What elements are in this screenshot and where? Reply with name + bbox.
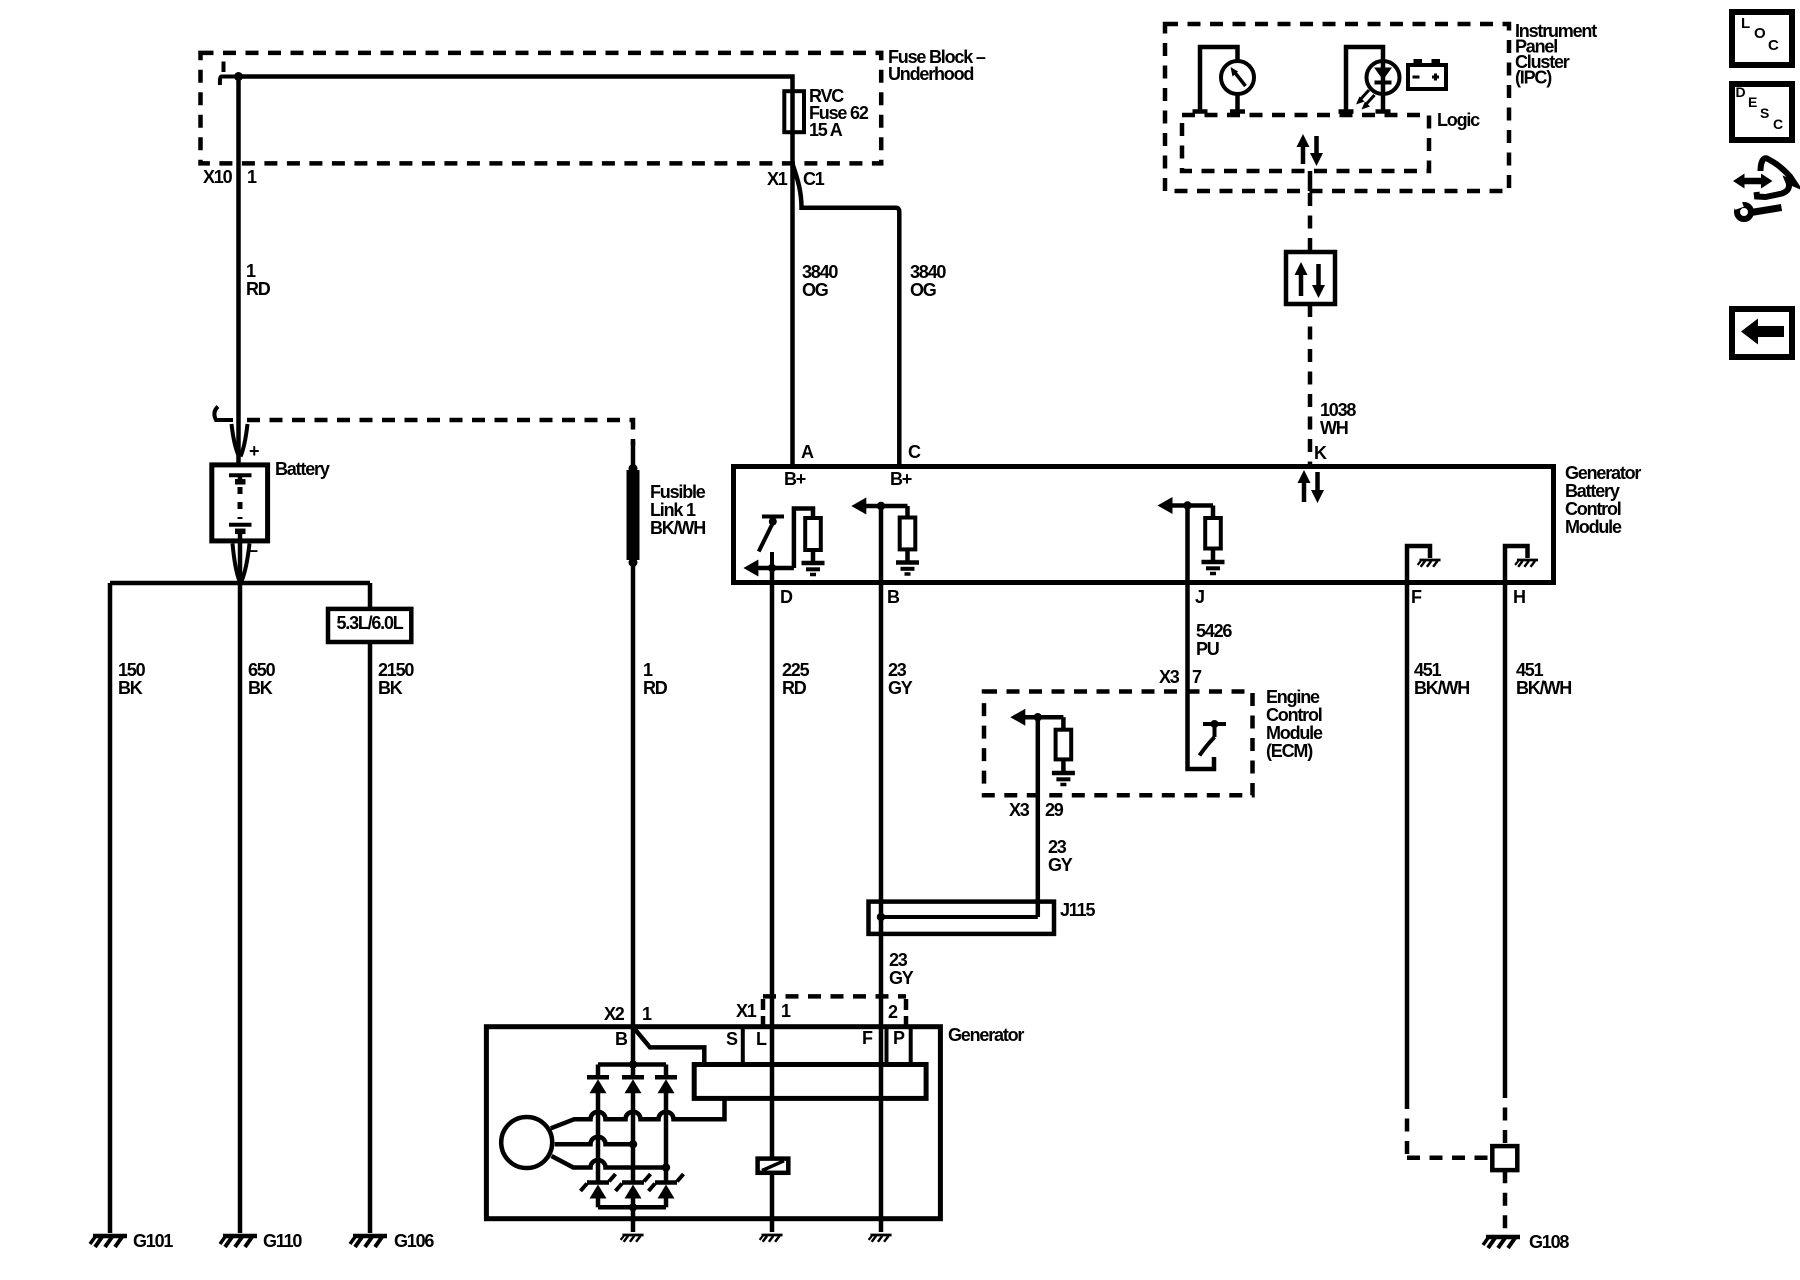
svg-text:B: B: [615, 1029, 628, 1049]
svg-text:GY: GY: [1048, 855, 1073, 875]
chassis ground L: [761, 1234, 782, 1237]
svg-text:Fusible: Fusible: [650, 482, 706, 502]
svg-text:J115: J115: [1060, 900, 1095, 920]
svg-text:D: D: [1736, 84, 1746, 100]
svg-text:2: 2: [888, 1002, 898, 1022]
wire 3840 OG circuit A: [793, 132, 839, 464]
svg-text:451: 451: [1516, 660, 1544, 680]
svg-text:X1: X1: [767, 169, 788, 189]
svg-text:C: C: [908, 442, 921, 462]
instrument panel cluster dashed box: [1165, 21, 1597, 191]
svg-text:1038: 1038: [1320, 400, 1356, 420]
svg-text:1: 1: [247, 167, 257, 187]
svg-text:1: 1: [642, 1004, 652, 1024]
wire P terminal through regulator: [879, 1027, 884, 1232]
svg-text:X2: X2: [604, 1004, 625, 1024]
wire 23 GY ECM to J115: [1048, 837, 1073, 875]
svg-text:451: 451: [1414, 660, 1442, 680]
svg-text:C: C: [1773, 116, 1783, 132]
svg-text:X1: X1: [736, 1001, 757, 1021]
svg-text:Generator: Generator: [1565, 463, 1641, 483]
svg-text:X3: X3: [1009, 800, 1030, 820]
svg-text:K: K: [1314, 443, 1327, 463]
connector label X3 pin 7: [1159, 667, 1202, 687]
svg-text:X10: X10: [203, 167, 233, 187]
wire 23 GY J115 to generator: [889, 950, 914, 988]
svg-text:+: +: [249, 441, 259, 461]
wire lamp to generator ground: [770, 1173, 775, 1232]
stator windings circle: [501, 1117, 552, 1168]
svg-text:X3: X3: [1159, 667, 1180, 687]
svg-text:C: C: [1768, 37, 1779, 54]
wire 150 BK: [110, 583, 146, 1233]
wire 451 BK/WH pin H: [1505, 585, 1571, 1146]
ECM internal pull-up resistor: [1010, 709, 1075, 785]
svg-text:Engine: Engine: [1266, 687, 1320, 707]
svg-text:E: E: [1748, 94, 1757, 110]
back arrow icon: [1732, 309, 1792, 357]
battery - terminal connector: [233, 541, 250, 583]
rectifier upper diodes: [587, 1065, 677, 1168]
svg-text:Battery: Battery: [275, 459, 330, 479]
svg-text:225: 225: [782, 660, 810, 680]
ECM internal switch: [1188, 692, 1227, 769]
svg-text:(ECM): (ECM): [1266, 741, 1313, 761]
generator battery control module box: [734, 463, 1642, 582]
svg-text:RD: RD: [246, 279, 271, 299]
battery negative split wire: [110, 581, 370, 586]
svg-text:Control: Control: [1266, 705, 1322, 725]
regulator box: [694, 1065, 926, 1099]
ECM wire to X3 29: [1036, 717, 1041, 917]
serial data link box: [1286, 252, 1335, 304]
svg-text:23: 23: [1048, 837, 1067, 857]
svg-text:15 A: 15 A: [809, 120, 843, 140]
svg-text:650: 650: [248, 660, 276, 680]
wire B terminal to regulator: [633, 1027, 704, 1065]
module internal sense resistor at pin J: [1158, 497, 1225, 583]
ground G108: [1483, 1232, 1569, 1252]
wire 3840 OG circuit C: [793, 164, 947, 464]
svg-text:OG: OG: [910, 280, 936, 300]
svg-text:(IPC): (IPC): [1515, 68, 1552, 88]
svg-text:BK: BK: [378, 678, 403, 698]
wire 451 BK/WH pin F: [1407, 585, 1492, 1158]
svg-text:3840: 3840: [910, 262, 946, 282]
connector label X2 pin 1: [604, 1004, 652, 1024]
connector label X3 pin 29: [1009, 800, 1064, 820]
svg-text:7: 7: [1192, 667, 1202, 687]
svg-text:Battery: Battery: [1565, 481, 1620, 501]
module internal ground at pin H: [1505, 546, 1538, 583]
svg-text:L: L: [756, 1029, 767, 1049]
connector label X10 pin 1: [203, 167, 257, 187]
fuse block underhood dashed box: [201, 47, 986, 163]
splice block right: [1492, 1146, 1517, 1170]
wire 23 GY pin B: [881, 585, 913, 1027]
svg-text:BK: BK: [118, 678, 143, 698]
svg-text:Generator: Generator: [948, 1025, 1024, 1045]
svg-text:GY: GY: [889, 968, 914, 988]
engine option box 5.3L/6.0L: [328, 609, 411, 642]
svg-text:O: O: [1754, 25, 1766, 42]
IPC logic dashed box: [1182, 110, 1480, 171]
LOC icon: [1732, 12, 1792, 65]
rectifier bridge top bar: [598, 1062, 666, 1067]
wire 2150 BK: [370, 583, 414, 1233]
wire logic to IPC edge: [1308, 171, 1313, 191]
module serial data arrows at pin K: [1298, 470, 1325, 503]
wire 650 BK: [240, 581, 276, 1233]
svg-text:GY: GY: [888, 678, 913, 698]
ground G101: [90, 1231, 173, 1251]
wire L terminal through regulator: [770, 1027, 775, 1159]
svg-text:150: 150: [118, 660, 146, 680]
generator connector X1 dashed outline: [763, 996, 906, 1025]
svg-text:5.3L/6.0L: 5.3L/6.0L: [337, 613, 404, 633]
terminal cell dividers: [743, 1027, 911, 1065]
lamp in generator: [758, 1159, 789, 1173]
dashed wire 1038 WH: [1310, 304, 1356, 464]
generator box: [486, 1025, 1024, 1219]
svg-text:1: 1: [781, 1001, 791, 1021]
wire 225 RD: [772, 585, 810, 1027]
svg-text:J: J: [1195, 587, 1204, 607]
svg-text:Control: Control: [1565, 499, 1621, 519]
generator case ground leg: [631, 1207, 636, 1232]
dashed wire to G108: [1503, 1170, 1508, 1233]
stator phase wire to regulator: [551, 1098, 725, 1128]
module internal ground at pin F: [1407, 546, 1441, 583]
svg-text:S: S: [1760, 105, 1769, 121]
wire 1 RD battery positive: [239, 77, 271, 425]
svg-text:RD: RD: [643, 678, 668, 698]
chassis ground rectifier: [622, 1234, 643, 1237]
svg-text:BK/WH: BK/WH: [650, 518, 705, 538]
rectifier lower avalanche diodes: [581, 1119, 684, 1207]
terminal hook X10: [220, 62, 237, 86]
svg-text:H: H: [1513, 587, 1525, 607]
module internal sense resistor at pin B: [851, 498, 919, 584]
DESC icon: [1732, 84, 1792, 140]
svg-text:OG: OG: [802, 280, 828, 300]
wire B terminal to rectifier: [629, 1027, 637, 1069]
svg-text:B+: B+: [784, 469, 806, 489]
svg-text:PU: PU: [1196, 639, 1219, 659]
svg-text:L: L: [1741, 15, 1750, 32]
svg-text:G106: G106: [394, 1231, 434, 1251]
svg-text:Module: Module: [1565, 517, 1622, 537]
fusible link 1 BK/WH: [628, 464, 706, 567]
svg-text:F: F: [1411, 587, 1422, 607]
module internal switch and sense at pin D: [743, 509, 824, 584]
IPC charge indicator lamp: [1339, 47, 1400, 112]
svg-text:G101: G101: [133, 1231, 173, 1251]
schematic reference icon: [1732, 158, 1795, 219]
IPC voltmeter gauge: [1193, 47, 1255, 112]
svg-text:D: D: [780, 587, 793, 607]
dashed serial data wire: [1308, 193, 1313, 252]
svg-text:5426: 5426: [1196, 621, 1232, 641]
svg-text:2150: 2150: [378, 660, 414, 680]
svg-text:G110: G110: [263, 1231, 302, 1251]
svg-text:29: 29: [1045, 800, 1064, 820]
wire battery+ to fuse: [234, 72, 793, 135]
battery: [212, 441, 330, 560]
svg-text:BK/WH: BK/WH: [1516, 678, 1571, 698]
svg-text:B+: B+: [890, 469, 912, 489]
IPC battery icon: [1408, 59, 1446, 89]
svg-text:C1: C1: [803, 169, 825, 189]
ground G110: [220, 1231, 302, 1251]
battery + terminal connector: [214, 407, 247, 466]
svg-text:RD: RD: [782, 678, 807, 698]
stator phase wire to leg2: [555, 1137, 638, 1149]
svg-text:3840: 3840: [802, 262, 838, 282]
svg-text:B: B: [887, 587, 900, 607]
svg-text:Underhood: Underhood: [888, 64, 973, 84]
svg-text:F: F: [862, 1028, 873, 1048]
svg-text:P: P: [893, 1028, 905, 1048]
svg-text:G108: G108: [1529, 1232, 1569, 1252]
splice pack J115: [869, 900, 1096, 934]
dashed wire battery+ to fusible link: [247, 420, 633, 445]
svg-text:BK/WH: BK/WH: [1414, 678, 1469, 698]
ground G106: [350, 1231, 434, 1251]
svg-text:Module: Module: [1266, 723, 1323, 743]
svg-text:Logic: Logic: [1437, 110, 1480, 130]
svg-text:1: 1: [246, 261, 256, 281]
rectifier bottom bar: [598, 1203, 666, 1211]
svg-text:23: 23: [889, 950, 908, 970]
svg-text:WH: WH: [1320, 418, 1348, 438]
stator phase wire to leg3: [552, 1156, 671, 1172]
logic serial data arrows: [1297, 134, 1324, 166]
connector label X1 pin C1: [767, 169, 825, 189]
svg-text:BK: BK: [248, 678, 273, 698]
wire 5426 PU: [1188, 585, 1233, 692]
svg-text:1: 1: [643, 660, 653, 680]
svg-text:Link 1: Link 1: [650, 500, 696, 520]
connector label X1 pins 1 2: [736, 1001, 898, 1022]
wire 1 RD fusible link to generator: [633, 562, 668, 1027]
fuse RVC Fuse 62 15A: [784, 86, 869, 140]
svg-text:A: A: [801, 442, 814, 462]
svg-text:S: S: [726, 1029, 738, 1049]
chassis ground P: [870, 1234, 891, 1237]
svg-text:23: 23: [888, 660, 907, 680]
engine control module dashed box: [984, 687, 1323, 795]
